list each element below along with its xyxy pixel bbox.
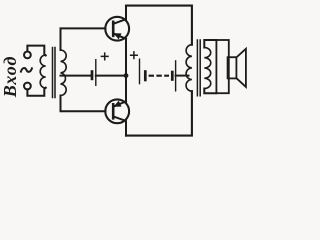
transformer T2 primary winding <box>186 45 192 91</box>
transformer T2 core <box>197 40 200 96</box>
transistor V2 collector line <box>113 116 126 135</box>
wire: battery to T2 center tap <box>176 75 189 77</box>
input terminal X2 (bottom circle) <box>24 83 31 90</box>
speaker frame rectangle <box>216 40 228 93</box>
transformer T1 primary winding <box>40 55 45 88</box>
svg-text:Вход: Вход <box>0 56 20 99</box>
battery GB2 negative plate <box>144 70 147 81</box>
label + (GB1) <box>101 53 108 60</box>
wire: T1 center tap to battery GB1 <box>61 75 91 77</box>
transformer T2 secondary winding <box>204 48 210 89</box>
wire: common emitter vertical <box>125 39 127 103</box>
wire: T2 secondary top to speaker <box>204 40 216 48</box>
battery GB2 far positive plate <box>175 60 177 91</box>
wire: T2 secondary bottom to speaker <box>204 89 216 94</box>
wire: T1 secondary bottom to V2 base <box>61 96 106 112</box>
transistor V1 emitter arrow (PNP) <box>114 34 121 39</box>
transformer T1 secondary winding <box>61 50 67 96</box>
battery GB2 positive plate <box>139 59 141 85</box>
transistor V1 base bar <box>112 22 115 36</box>
wire: T1 secondary top to V1 base <box>61 28 106 50</box>
transformer T1 core <box>53 48 56 98</box>
transistor V1 emitter line <box>114 34 126 39</box>
wire: top rail (V1 collector to T2 primary) <box>126 6 192 45</box>
transistor V2 emitter line <box>114 101 126 106</box>
transistor V2 base bar <box>112 104 115 118</box>
node: emitter junction dot <box>124 73 129 78</box>
battery GB1 positive plate <box>95 59 97 86</box>
battery GB1 negative plate <box>91 70 94 80</box>
wire: bottom rail (V2 collector to T2 primary) <box>126 91 192 135</box>
AC symbol ~ <box>21 68 32 72</box>
loudspeaker BA1 horn <box>236 49 246 87</box>
loudspeaker BA1 body <box>228 57 237 78</box>
wire: bottom terminal to T1 primary bottom <box>27 88 45 96</box>
wire: top terminal to T1 primary top <box>27 46 45 56</box>
wire: GB1 to emitter junction <box>96 75 126 77</box>
transistor V1 collector line <box>113 6 126 24</box>
transistor V2 emitter arrow (PNP) <box>114 101 121 106</box>
transistor V2 circle <box>105 99 129 123</box>
label + (GB2) <box>131 52 138 59</box>
input terminal X1 (top circle) <box>24 52 31 59</box>
transistor V1 circle <box>105 17 129 41</box>
wire: dashed battery continuation <box>149 75 169 77</box>
battery GB2 far negative plate <box>171 71 174 81</box>
